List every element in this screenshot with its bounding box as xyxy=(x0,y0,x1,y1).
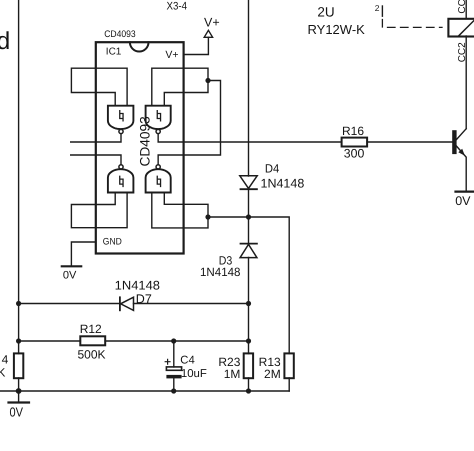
wire: R16 to transistor base xyxy=(367,141,452,143)
junction: C4 bottom xyxy=(171,388,176,393)
svg-text:C4: C4 xyxy=(180,354,194,366)
NAND gate IC1c body xyxy=(108,169,133,192)
ground 0V (bottom left) xyxy=(18,391,20,402)
svg-text:10uF: 10uF xyxy=(181,368,207,380)
junction: IC1b inputs node xyxy=(205,78,210,83)
junction: column / R12 wire xyxy=(246,338,251,343)
svg-text:0V: 0V xyxy=(63,270,77,282)
svg-text:CD4093: CD4093 xyxy=(138,116,153,167)
IC notch xyxy=(130,42,149,51)
junction: column / D7 wire xyxy=(246,301,251,306)
junction: column / D node xyxy=(246,214,251,219)
diode D3 xyxy=(241,243,257,245)
wire: IC1a input loop xyxy=(71,68,127,106)
IC U1 CD4093 outline xyxy=(96,42,184,253)
emitter arrowhead xyxy=(458,149,465,156)
wire: IC1b input loop xyxy=(152,68,208,106)
wire: IC1b output to R16 (left part) xyxy=(158,134,341,142)
wire: relay top lead xyxy=(465,0,467,19)
wire: IC1c input loop xyxy=(71,193,127,228)
IC1d output bubble xyxy=(156,165,160,169)
wire: IC1c output to left xyxy=(71,155,121,165)
transistor emitter xyxy=(456,146,466,192)
wire: D node to R13 branch xyxy=(208,217,289,391)
svg-text:0V: 0V xyxy=(10,404,24,419)
transistor collector xyxy=(456,129,466,140)
dashed link to relay xyxy=(382,20,442,28)
wire: D7 net (left rail to column) xyxy=(19,303,249,305)
C4 polarity plus xyxy=(165,359,170,364)
svg-text:300: 300 xyxy=(344,147,365,161)
svg-text:1N4148: 1N4148 xyxy=(200,265,241,279)
wire: IC V+ pin to V+ arrow xyxy=(184,37,209,54)
svg-text:d: d xyxy=(0,28,10,55)
wire: relay to transistor collector xyxy=(465,36,467,129)
svg-text:V+: V+ xyxy=(165,49,178,61)
svg-text:R12: R12 xyxy=(80,322,102,336)
IC1c output bubble xyxy=(119,165,123,169)
transistor Q (NPN) base bar xyxy=(452,130,456,154)
relay coil RY12W-K xyxy=(448,19,474,37)
capacitor C4 top plate xyxy=(166,367,181,370)
svg-text:0V: 0V xyxy=(455,194,471,208)
svg-text:RY12W-K: RY12W-K xyxy=(308,22,366,37)
svg-text:D7: D7 xyxy=(136,292,152,306)
NAND gate IC1a body xyxy=(108,106,133,129)
svg-text:CC2: CC2 xyxy=(457,42,468,62)
wire: C4 branch xyxy=(173,341,175,391)
V+ supply arrow xyxy=(204,30,212,37)
ground bar (IC GND) xyxy=(62,265,81,267)
resistor R14 (cut off at left edge) xyxy=(14,353,23,378)
svg-text:V+: V+ xyxy=(204,16,220,30)
resistor R23 xyxy=(244,353,253,378)
svg-text:500K: 500K xyxy=(78,348,106,362)
wire: IC1d output up to IC1b inputs xyxy=(158,81,220,165)
svg-text:K: K xyxy=(0,365,5,379)
capacitor C4 bottom plate xyxy=(166,375,181,379)
wire: IC GND pin to ground xyxy=(71,242,95,266)
IC1a output bubble xyxy=(119,129,123,133)
svg-text:CC1: CC1 xyxy=(457,0,468,14)
svg-text:1N4148: 1N4148 xyxy=(261,176,305,190)
junction: left rail / R12 wire xyxy=(16,338,21,343)
wire: middle column (relay coil feed through D4/D3) xyxy=(248,0,250,391)
svg-text:R16: R16 xyxy=(342,124,364,138)
IC1c schmitt symbol xyxy=(120,176,123,186)
diode D7 xyxy=(119,297,121,310)
NAND gate IC1b body xyxy=(146,106,171,129)
wire: bottom 0V rail xyxy=(0,390,289,392)
svg-text:GND: GND xyxy=(103,237,122,248)
junction: IC1d inputs node xyxy=(205,214,210,219)
resistor R12 xyxy=(80,336,105,345)
svg-text:2M: 2M xyxy=(264,367,281,381)
wire: R12 net xyxy=(19,340,249,342)
junction: column / bottom rail xyxy=(246,388,251,393)
wire: IC1a output to left xyxy=(71,134,121,142)
wire: left vertical rail xyxy=(18,0,20,391)
ground bar (transistor 0V) xyxy=(456,191,474,193)
IC1b schmitt symbol xyxy=(157,111,160,121)
junction: left rail / bottom rail xyxy=(16,388,22,394)
IC1a schmitt symbol xyxy=(120,111,123,121)
svg-text:1M: 1M xyxy=(224,367,241,381)
svg-text:2U: 2U xyxy=(317,4,334,19)
relay pin 2 tick xyxy=(381,6,383,16)
IC1d schmitt symbol xyxy=(157,176,160,186)
svg-text:IC1: IC1 xyxy=(106,47,122,58)
resistor R13 xyxy=(284,353,293,378)
NAND gate IC1d body xyxy=(146,169,171,192)
resistor R16 xyxy=(342,138,368,147)
svg-text:1N4148: 1N4148 xyxy=(115,278,160,292)
svg-text:X3-4: X3-4 xyxy=(167,0,188,12)
wire: IC1d input loop xyxy=(152,193,208,228)
junction: left rail / D7 wire xyxy=(16,301,21,306)
IC1b output bubble xyxy=(156,129,160,133)
diode D4 xyxy=(240,176,257,189)
svg-text:2: 2 xyxy=(375,3,380,13)
svg-text:4: 4 xyxy=(2,353,9,367)
svg-text:CD4093: CD4093 xyxy=(104,29,136,40)
svg-text:D4: D4 xyxy=(265,162,280,176)
junction: C4 top xyxy=(171,338,176,343)
